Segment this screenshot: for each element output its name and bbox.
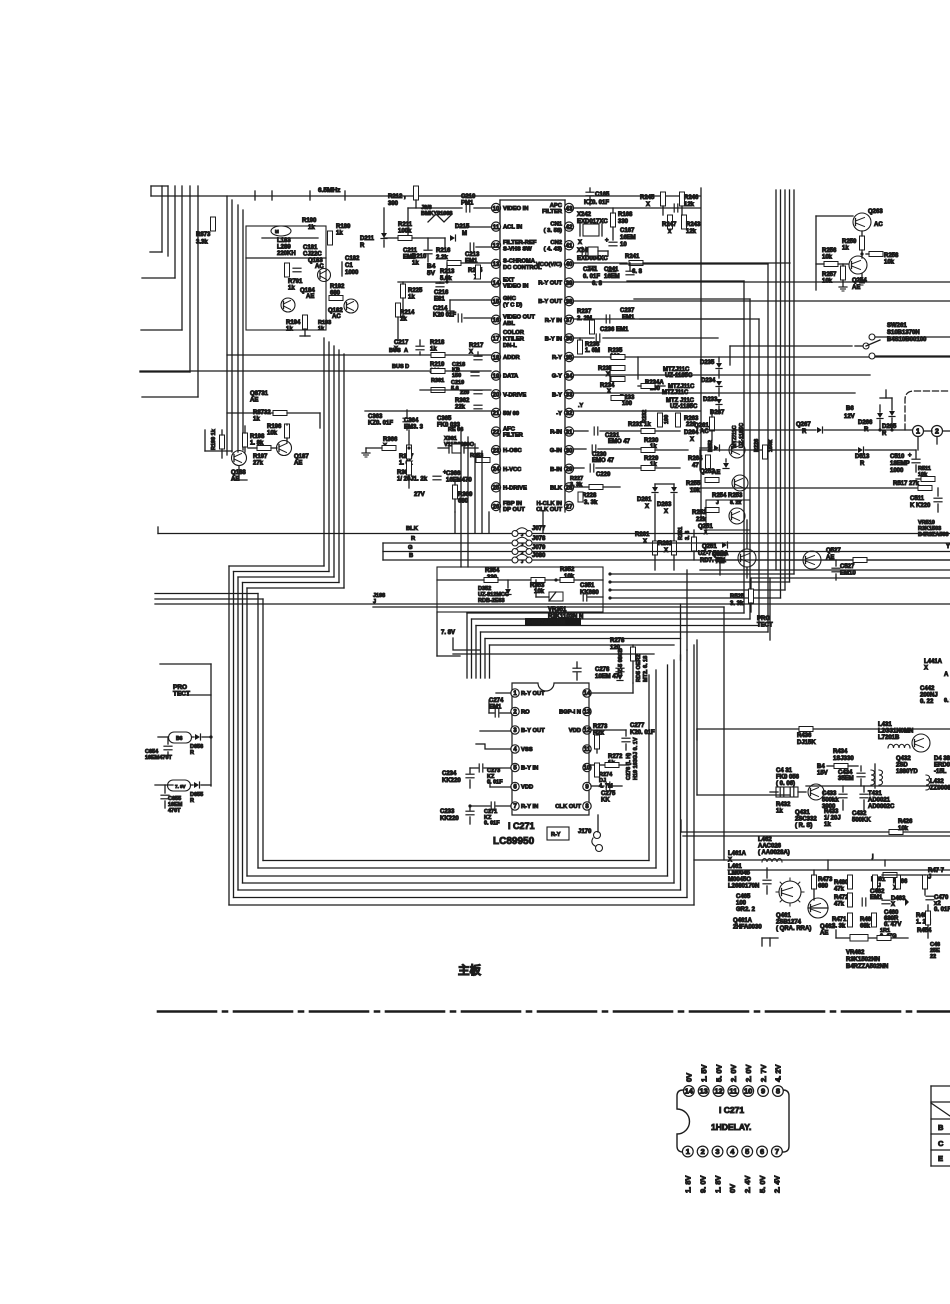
svg-text:10: 10 [584,766,591,772]
svg-text:SW261: SW261 [887,323,907,329]
svg-text:B4: B4 [817,764,825,770]
svg-text:1HDELAY.: 1HDELAY. [711,1122,751,1132]
svg-text:D265: D265 [882,424,897,430]
svg-text:LC89950: LC89950 [493,836,535,847]
svg-text:(Y C D): (Y C D) [503,302,522,308]
svg-text:R253: R253 [728,493,743,499]
svg-text:C351: C351 [580,583,595,589]
svg-text:R-Y: R-Y [551,832,561,838]
svg-text:680: 680 [818,884,829,890]
svg-text:4. 2V: 4. 2V [774,1064,783,1082]
svg-text:VR462: VR462 [846,950,865,956]
svg-text:J: J [521,559,523,564]
svg-text:1k: 1k [253,417,260,423]
svg-text:MT2. 6. 18: MT2. 6. 18 [643,656,649,682]
svg-text:R791: R791 [288,279,303,285]
svg-text:35: 35 [565,354,573,361]
svg-text:H-OSC: H-OSC [503,448,522,454]
svg-text:2. 4V: 2. 4V [773,1175,782,1193]
svg-text:R473: R473 [818,877,833,883]
svg-text:C217: C217 [394,340,409,346]
svg-text:AC: AC [874,222,883,228]
svg-text:ABL: ABL [503,321,515,327]
svg-text:FK0 056: FK0 056 [776,775,800,781]
svg-text:R: R [190,798,194,804]
svg-text:C1: C1 [345,263,353,269]
svg-text:1k: 1k [408,295,415,301]
svg-text:16: 16 [492,317,500,324]
svg-text:AD0002C: AD0002C [868,804,895,810]
svg-text:CLK OUT: CLK OUT [536,507,562,513]
svg-text:C432: C432 [852,811,867,817]
svg-text:2. 0V: 2. 0V [729,1064,738,1082]
svg-text:38: 38 [565,298,573,305]
svg-text:( 4. 43): ( 4. 43) [544,246,562,252]
svg-text:13: 13 [492,261,500,268]
svg-text:AE: AE [712,470,720,476]
svg-text:10: 10 [744,1087,752,1096]
svg-text:R273: R273 [593,724,608,730]
svg-text:L183: L183 [277,238,291,244]
svg-text:R-Y: R-Y [552,355,562,361]
svg-text:30: 30 [565,447,573,454]
svg-text:Q527: Q527 [826,548,841,554]
svg-text:CN1: CN1 [550,221,562,227]
svg-text:11: 11 [493,224,500,231]
svg-text:B4RZZA502NN: B4RZZA502NN [846,964,888,970]
svg-text:1SJ330: 1SJ330 [833,756,854,762]
svg-text:C511: C511 [910,496,925,502]
svg-text:22: 22 [930,954,936,960]
svg-text:S-VHS SW: S-VHS SW [503,246,532,252]
svg-text:( AA0028A): ( AA0028A) [758,850,790,856]
svg-text:Q432: Q432 [896,756,911,762]
svg-text:C167: C167 [620,228,635,234]
svg-text:12V: 12V [844,414,855,420]
svg-text:GNC: GNC [503,296,517,302]
svg-text:BUS D: BUS D [392,364,409,370]
svg-text:1k: 1k [336,231,343,237]
svg-text:DP OUT: DP OUT [503,507,525,513]
svg-text:1000: 1000 [890,468,904,474]
svg-text:R433: R433 [824,809,839,815]
svg-text:R278: R278 [610,638,625,644]
svg-text:B-Y IN: B-Y IN [521,766,538,772]
svg-text:DATA: DATA [503,374,519,380]
svg-text:33: 33 [565,392,573,399]
svg-text:R212 ,: R212 , [388,194,406,200]
svg-text:CJ22C: CJ22C [303,252,322,258]
svg-text:43: 43 [565,205,573,212]
svg-text:Q251: Q251 [702,544,717,550]
svg-text:C527: C527 [840,564,855,570]
svg-text:C364: C364 [404,418,419,424]
svg-text:2HFA0030: 2HFA0030 [733,925,762,931]
svg-text:22k: 22k [455,405,466,411]
svg-text:D233: D233 [703,397,718,403]
svg-text:VDD: VDD [521,785,533,791]
svg-text:M0045O: M0045O [728,877,751,883]
svg-text:C216: C216 [434,290,449,296]
svg-text:X: X [607,389,611,395]
svg-text:R436: R436 [797,733,812,739]
svg-text:C465: C465 [736,894,751,900]
svg-text:AD0021: AD0021 [868,798,891,804]
svg-text:C214: C214 [433,306,448,312]
svg-text:C233: C233 [440,809,455,815]
svg-text:Y: Y [946,544,950,550]
svg-text:AE: AE [852,285,860,291]
svg-text:29: 29 [565,466,573,473]
svg-text:UZ-1185C: UZ-1185C [665,373,693,379]
svg-text:3. 3k: 3. 3k [584,500,598,506]
svg-text:J: J [716,500,719,506]
svg-text:L432: L432 [930,779,944,785]
svg-text:D4 38: D4 38 [934,756,950,762]
svg-text:J: J [521,550,523,555]
svg-text:J079: J079 [532,545,546,551]
svg-text:VSS: VSS [521,747,533,753]
svg-text:R210: R210 [412,254,427,260]
svg-text:R354: R354 [485,568,500,574]
svg-text:27k: 27k [253,461,264,467]
svg-text:34: 34 [565,373,573,380]
svg-text:H-DRIVE: H-DRIVE [503,485,527,491]
svg-text:37: 37 [565,317,573,324]
svg-text:3. 3: 3. 3 [685,531,691,540]
svg-text:R-Y IN: R-Y IN [521,804,538,810]
svg-text:TECT: TECT [173,691,190,698]
svg-text:7. 8V: 7. 8V [175,784,186,789]
svg-text:T431: T431 [868,791,882,797]
svg-text:C278: C278 [595,667,610,673]
svg-text:L462: L462 [758,837,772,843]
svg-text:C274: C274 [489,698,504,704]
svg-text:R246: R246 [684,195,699,201]
svg-text:ACL IN: ACL IN [503,225,522,231]
svg-text:D264: D264 [684,430,699,436]
svg-text:R194: R194 [286,320,301,326]
svg-text:K K220: K K220 [910,503,931,509]
svg-text:VDD: VDD [569,728,581,734]
svg-text:X: X [924,666,928,672]
svg-text:1k: 1k [776,809,783,815]
svg-text:R480: R480 [834,880,849,886]
svg-text:C433: C433 [822,791,837,797]
svg-text:R241: R241 [625,254,640,260]
svg-text:C4 31: C4 31 [776,768,793,774]
svg-text:AE: AE [820,931,828,937]
svg-text:KK: KK [601,798,610,804]
svg-text:R237: R237 [577,309,592,315]
svg-text:B-Y IN: B-Y IN [545,336,562,342]
svg-text:C210: C210 [461,194,476,200]
svg-text:R517 27k: R517 27k [893,481,920,487]
svg-text:R245: R245 [640,195,655,201]
svg-text:R259: R259 [842,239,857,245]
svg-text:R525: R525 [730,594,745,600]
svg-text:8: 8 [776,1087,780,1096]
svg-text:AFC: AFC [503,426,516,432]
svg-text:KZ0. 01F: KZ0. 01F [368,421,393,427]
svg-text:7. 8V: 7. 8V [441,630,455,636]
svg-text:AC: AC [332,314,341,320]
svg-text:G: G [408,545,413,551]
svg-text:27: 27 [565,503,573,510]
svg-text:UZ-1185C: UZ-1185C [739,423,745,448]
svg-text:R472: R472 [834,895,849,901]
svg-text:J: J [521,532,523,537]
svg-text:2SC332: 2SC332 [795,817,817,823]
svg-text:200NJ: 200NJ [920,693,938,699]
svg-text:L461A: L461A [728,851,747,857]
svg-text:VR351: VR351 [548,607,567,613]
svg-text:6.5MHz: 6.5MHz [318,187,341,194]
svg-text:14: 14 [492,280,500,287]
svg-text:9: 9 [761,1087,765,1096]
svg-text:R426: R426 [898,819,913,825]
svg-text:1. 8V: 1. 8V [684,1175,693,1193]
svg-text:R362: R362 [455,398,470,404]
svg-text:100: 100 [736,901,747,907]
svg-text:X: X [891,902,895,908]
svg-text:X242: X242 [577,212,592,218]
svg-text:2: 2 [935,429,939,436]
svg-text:C365: C365 [437,416,452,422]
svg-text:C236 EM1: C236 EM1 [600,327,629,333]
svg-text:R225: R225 [408,288,423,294]
svg-text:DN-L: DN-L [503,343,517,349]
svg-text:主板: 主板 [458,963,481,977]
svg-text:0V: 0V [685,1073,694,1082]
svg-text:COLOR: COLOR [503,330,525,336]
svg-text:K20. 01F: K20. 01F [630,730,655,736]
svg-text:5: 5 [745,1147,749,1156]
svg-text:7: 7 [775,1147,779,1156]
svg-text:R352: R352 [560,567,575,573]
svg-text:R: R [190,750,194,756]
svg-text:R216: R216 [436,248,451,254]
svg-text:150: 150 [452,373,461,379]
svg-text:1. 5V: 1. 5V [699,1064,708,1082]
svg-text:16EM: 16EM [620,235,636,241]
svg-text:R434: R434 [833,749,848,755]
svg-text:42: 42 [565,224,573,231]
svg-text:C363: C363 [368,414,383,420]
svg-text:L461: L461 [728,864,742,870]
svg-text:EMO 47: EMO 47 [608,439,631,445]
svg-text:330: 330 [618,219,629,225]
svg-text:B4S10B00100: B4S10B00100 [887,337,927,343]
svg-text:EM10: EM10 [840,571,856,577]
svg-text:S-CHROMA: S-CHROMA [503,259,536,265]
svg-text:Q263: Q263 [868,209,883,215]
svg-text:FILTER-REF: FILTER-REF [503,240,537,246]
svg-text:R228: R228 [582,493,597,499]
svg-text:VIDEO IN: VIDEO IN [503,206,528,212]
svg-text:13: 13 [699,1087,707,1096]
svg-text:R873: R873 [196,232,211,238]
svg-text:.Y: .Y [578,403,584,409]
svg-text:B-Y OUT: B-Y OUT [521,728,545,734]
svg-text:R: R [860,461,865,467]
svg-text:KTILER: KTILER [503,336,525,342]
svg-text:MTZJ11C: MTZJ11C [662,390,689,396]
svg-text:+: + [443,470,447,476]
svg-text:0. 2: 0. 2 [944,698,950,704]
svg-text:18EMP: 18EMP [890,461,910,467]
svg-text:L289: L289 [277,245,291,251]
svg-text:11: 11 [584,747,591,753]
svg-text:39: 39 [565,280,573,287]
svg-text:B-Y: B-Y [552,392,562,398]
svg-text:( QRA. RRA): ( QRA. RRA) [776,926,811,932]
svg-text:10k: 10k [267,431,278,437]
svg-text:B6: B6 [846,406,854,412]
svg-text:26: 26 [492,503,500,510]
svg-text:2. 4V: 2. 4V [743,1175,752,1193]
svg-text:1/ 20J1. 2k: 1/ 20J1. 2k [397,477,428,483]
svg-text:3.3k: 3.3k [196,240,208,246]
svg-text:R218: R218 [430,340,445,346]
svg-text:KZ0. 01F: KZ0. 01F [584,200,609,206]
svg-text:100: 100 [622,401,633,407]
svg-text:22: 22 [492,429,500,436]
svg-text:R256: R256 [822,248,837,254]
svg-text:( 3. 58): ( 3. 58) [544,228,562,234]
svg-text:27V: 27V [414,492,425,498]
svg-text:R232: R232 [642,410,648,423]
svg-text:C213: C213 [465,252,480,258]
svg-text:2. 0V: 2. 0V [744,1064,753,1082]
svg-text:E: E [938,1154,943,1163]
svg-text:R198: R198 [250,434,265,440]
svg-text:10k: 10k [690,488,701,494]
svg-text:-15L: -15L [934,769,947,775]
svg-text:1k: 1k [286,327,293,333]
svg-text:D261: D261 [637,497,652,503]
svg-text:J078: J078 [532,536,546,542]
svg-text:31: 31 [565,429,573,436]
svg-text:R211: R211 [398,222,413,228]
svg-text:10: 10 [492,205,500,212]
svg-text:C229: C229 [596,472,611,478]
svg-text:50/ 60: 50/ 60 [503,411,519,417]
svg-text:EM1: EM1 [870,895,883,901]
svg-text:23: 23 [492,447,500,454]
svg-text:L431: L431 [878,722,892,728]
svg-text:X: X [469,350,473,356]
svg-text:1880YD: 1880YD [896,769,918,775]
svg-text:R214: R214 [400,310,415,316]
svg-text:C366: C366 [446,471,461,477]
svg-text:R-Y OUT: R-Y OUT [538,281,562,287]
svg-text:VIDEO OUT: VIDEO OUT [503,315,535,321]
svg-text:FILTER: FILTER [503,433,524,439]
svg-text:R262: R262 [658,541,673,547]
svg-text:H-CLK IN: H-CLK IN [537,501,562,507]
svg-text:R-IN: R-IN [550,430,562,436]
svg-text:R254: R254 [712,493,727,499]
svg-text:R168: R168 [618,212,633,218]
svg-text:G-Y: G-Y [552,374,562,380]
svg-text:1k: 1k [412,261,419,267]
svg-text:B: B [409,553,413,559]
svg-text:100: 100 [664,415,670,424]
svg-text:VCO(V/C): VCO(V/C) [536,262,562,268]
svg-text:C510: C510 [890,454,905,460]
svg-text:RD5 OER2: RD5 OER2 [636,654,642,682]
svg-text:X: X [578,240,582,246]
svg-text:EXT: EXT [503,277,515,283]
svg-text:PM1: PM1 [461,201,474,207]
svg-text:R47 7: R47 7 [928,868,945,874]
svg-text:FILTER: FILTER [542,209,563,215]
svg-text:2SD: 2SD [896,763,908,769]
svg-text:1: 1 [686,1147,690,1156]
svg-text:-Y: -Y [556,411,562,417]
svg-text:5.6: 5.6 [451,386,459,392]
svg-text:A: A [404,348,408,354]
svg-text:R432: R432 [776,802,791,808]
svg-text:AAC026: AAC026 [758,844,782,850]
svg-text:VIDEO IN: VIDEO IN [503,284,528,290]
svg-text:D263: D263 [657,502,672,508]
svg-text:3: 3 [715,1147,719,1156]
svg-text:3. 3k: 3. 3k [730,601,744,607]
svg-text:ADDR: ADDR [503,355,521,361]
svg-text:6: 6 [760,1147,764,1156]
svg-text:41: 41 [565,243,573,250]
svg-text:C182: C182 [345,256,360,262]
svg-text:X: X [643,539,647,545]
svg-text:K20 01F: K20 01F [433,313,456,319]
svg-text:AE: AE [306,294,314,300]
svg-text:MTZ/11C: MTZ/11C [732,425,738,448]
svg-text:11: 11 [729,1087,737,1096]
svg-text:100k: 100k [398,229,412,235]
svg-text:0. 01F: 0. 01F [484,821,500,827]
svg-text:CN2: CN2 [550,240,562,246]
svg-text:220: 220 [686,422,697,428]
svg-text:EM3. 3: EM3. 3 [404,425,424,431]
svg-text:V-DRIVE: V-DRIVE [503,392,526,398]
svg-text:R361: R361 [431,378,444,384]
svg-text:KK220: KK220 [440,816,459,822]
svg-text:12k: 12k [686,229,697,235]
svg-text:10k: 10k [822,279,833,285]
svg-text:17: 17 [492,336,500,343]
svg-text:BGP-I N: BGP-I N [559,710,581,716]
svg-text:220KH: 220KH [277,251,296,257]
svg-text:2SB1274: 2SB1274 [776,920,802,926]
svg-text:12: 12 [584,728,591,734]
svg-text:X: X [645,504,649,510]
svg-text:C181: C181 [303,245,318,251]
svg-text:16EM: 16EM [604,274,620,280]
svg-text:X: X [690,437,694,443]
svg-text:D234: D234 [701,378,716,384]
svg-text:B4R3ZA503: B4R3ZA503 [918,532,949,538]
svg-text:40: 40 [565,261,573,268]
svg-text:1. 8V: 1. 8V [713,1175,722,1193]
svg-text:1k: 1k [842,246,849,252]
svg-text:C234: C234 [442,771,457,777]
svg-text:M: M [275,229,279,234]
svg-text:EMO 47: EMO 47 [592,458,615,464]
svg-text:14: 14 [584,691,591,697]
svg-text:24: 24 [492,466,500,473]
